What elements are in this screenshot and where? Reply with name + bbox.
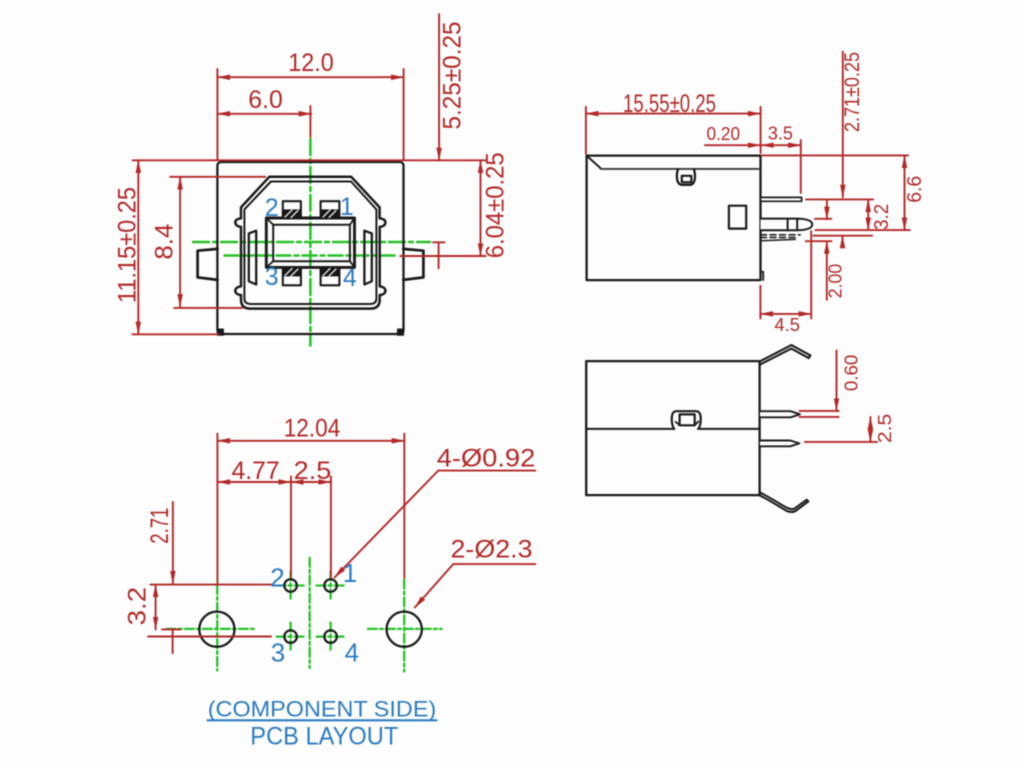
dim 12.0 line	[217, 76, 403, 78]
pin hole 4	[324, 630, 337, 643]
side view inner top fold line	[601, 168, 759, 170]
dim 2.5 line	[291, 481, 331, 483]
svg-text:8.4: 8.4	[150, 224, 178, 260]
svg-text:4: 4	[345, 637, 359, 667]
dim 12.04 line	[217, 440, 404, 442]
svg-text:2.71: 2.71	[146, 508, 174, 544]
svg-text:0.60: 0.60	[841, 355, 861, 392]
dim 8.4 line	[179, 177, 181, 307]
side view body	[587, 156, 761, 281]
pin 2 lower tail line	[761, 239, 795, 240]
USB-B shell outer outline	[235, 177, 385, 309]
svg-text:12.04: 12.04	[284, 415, 341, 443]
svg-text:1: 1	[340, 193, 354, 221]
svg-text:3.2: 3.2	[124, 587, 152, 626]
left mounting tab	[198, 249, 218, 280]
pin2 dashed-edge reference line	[814, 235, 873, 237]
top view latch outline	[672, 411, 701, 429]
svg-text:2.5: 2.5	[294, 457, 332, 485]
front view outer square body	[217, 162, 403, 334]
dim 11.15 bottom extension	[132, 333, 218, 335]
dim 6.04 line	[480, 160, 482, 256]
dim 8.4 top extension	[170, 176, 265, 178]
pin1 top reference line	[806, 198, 873, 200]
dim 15.55 line	[586, 113, 761, 115]
svg-text:PCB LAYOUT: PCB LAYOUT	[250, 722, 398, 750]
contact pad pin4 hatched contact	[321, 267, 340, 276]
front view upper horizontal green centerline	[193, 241, 430, 244]
front view vertical green centerline	[309, 139, 312, 346]
dim 2.00 line with up arrow	[826, 241, 828, 300]
dim 4.77 line	[217, 481, 291, 483]
upper bent solder leg	[760, 345, 811, 365]
dim 2.71 line with down arrow	[172, 502, 174, 584]
svg-text:3.2: 3.2	[871, 204, 893, 230]
green centerline left hole vertical	[216, 585, 218, 671]
svg-text:6.0: 6.0	[248, 86, 283, 114]
svg-text:1: 1	[343, 558, 357, 588]
bottom-right corner notch	[398, 329, 404, 335]
body top reference line for 6.6	[762, 154, 909, 156]
right inner wing fold	[364, 231, 371, 285]
green cross pin hole 2	[277, 572, 305, 600]
dim 0.60 line with down arrow	[836, 350, 838, 411]
contact pad pin3 outline	[283, 267, 301, 285]
dim 0.20 line	[705, 144, 761, 146]
dim 2.71 line upper with arrow to pin1	[842, 52, 844, 198]
svg-text:4.5: 4.5	[774, 315, 800, 335]
green cross pin hole 4	[317, 623, 345, 651]
top view mid parting line	[586, 428, 759, 430]
mounting hole centerline tick	[162, 629, 180, 653]
tongue corner draft lines	[266, 218, 354, 267]
top view latch base flares	[676, 421, 699, 425]
center tongue inner rectangle	[273, 225, 350, 262]
svg-text:2: 2	[270, 563, 284, 593]
contact pad pin1 outline	[321, 201, 340, 218]
svg-text:3: 3	[265, 263, 279, 291]
caption underline	[208, 719, 437, 721]
pin2 bottom reference line	[816, 229, 910, 231]
pin 1 (side view, upper)	[761, 197, 802, 201]
svg-text:2-Ø2.3: 2-Ø2.3	[451, 536, 533, 564]
pin B (top view, pointed)	[760, 441, 799, 447]
contact pad pin1 hatched contact	[321, 209, 340, 218]
contact pad pin2 hatched contact	[283, 209, 301, 218]
pin 2 inner segment lines	[788, 219, 798, 231]
dim 4.77 / 2.5 extension lines	[291, 477, 331, 578]
dim 11.15 line	[137, 160, 139, 334]
top reference line y160	[133, 159, 487, 161]
dim 4.5 line	[760, 313, 811, 315]
pin row 2 reference line	[148, 636, 271, 638]
pin A thickness reference lines	[800, 411, 839, 417]
svg-text:3.5: 3.5	[768, 124, 793, 144]
front view lower horizontal green centerline	[225, 254, 396, 257]
green centerline right hole vertical	[403, 580, 405, 672]
pin hole 1	[324, 579, 337, 592]
svg-text:2.5: 2.5	[875, 414, 895, 444]
side view top-left chamfer	[587, 156, 600, 168]
dim 6.0 line	[217, 113, 311, 115]
green centerline middle vertical	[309, 558, 311, 668]
leader 4-dia0.92	[438, 470, 535, 472]
green centerline left hole horizontal	[167, 628, 256, 630]
svg-text:12.0: 12.0	[288, 49, 334, 77]
dim 3.2 line	[867, 199, 869, 230]
pin hole 3	[284, 630, 297, 643]
right mounting tab	[403, 249, 423, 280]
dim 12.04 extension lines	[217, 434, 404, 584]
lower bent solder leg	[760, 492, 809, 512]
side view window cutout	[729, 206, 746, 229]
svg-text:5.25±0.25: 5.25±0.25	[439, 22, 467, 130]
pin B reference line	[805, 441, 877, 443]
pin 2 hidden edge (dashed)	[761, 234, 801, 236]
dim 6.0 extension to centerline	[309, 106, 311, 137]
side view latch inner window	[682, 176, 692, 182]
svg-text:4-Ø0.92: 4-Ø0.92	[437, 445, 536, 473]
dim 6.04 bottom reference line	[400, 255, 485, 257]
svg-text:4: 4	[343, 264, 357, 292]
svg-text:2.00: 2.00	[826, 264, 846, 299]
top view latch inner window	[680, 414, 695, 425]
dim 3.2 line	[155, 585, 157, 630]
dim 5.25 line	[438, 14, 440, 160]
dim 4.5 extension lines	[760, 231, 811, 319]
pin hole 2	[284, 579, 297, 592]
dim 3.5 right extension	[800, 140, 802, 193]
svg-text:2: 2	[265, 194, 279, 222]
dim 15.55 extension lines	[586, 107, 761, 154]
contact pad pin2 outline	[283, 201, 301, 218]
side view latch detail	[677, 169, 695, 185]
mounting hole right	[387, 612, 422, 647]
svg-text:4.77: 4.77	[231, 457, 279, 485]
svg-text:3: 3	[271, 637, 285, 667]
svg-text:11.15±0.25: 11.15±0.25	[114, 187, 142, 303]
svg-text:(COMPONENT SIDE): (COMPONENT SIDE)	[208, 697, 437, 722]
dim 2.71 lower arrow	[842, 236, 844, 248]
dim 12.0 extension lines	[217, 69, 403, 160]
side view bottom-right step	[761, 272, 764, 280]
pin2 top short reference line	[815, 218, 832, 220]
dim 3.5 line	[761, 144, 801, 146]
centerline tick cross right of square	[433, 242, 445, 268]
svg-text:6.04±0.25: 6.04±0.25	[482, 152, 510, 258]
green centerline right hole horizontal	[368, 628, 442, 630]
dim 2.00 reference line	[806, 240, 832, 242]
dim 8.4 bottom extension	[174, 307, 242, 309]
top view body	[586, 361, 759, 495]
arrow from pin1 line to pin2 top	[826, 201, 828, 219]
green cross pin hole 1	[317, 572, 345, 600]
pin 2 (side view, bullet shaped)	[761, 219, 813, 231]
pin row 1 reference line	[150, 584, 273, 586]
bottom-left corner notch	[218, 329, 224, 335]
svg-text:6.6: 6.6	[904, 176, 926, 203]
left inner wing fold	[249, 231, 256, 285]
dim 6.6 line	[904, 155, 906, 230]
green cross pin hole 3	[277, 623, 305, 651]
svg-text:0.20: 0.20	[707, 124, 741, 144]
pin A (top view, pointed)	[760, 411, 800, 417]
leader 2-dia2.3	[453, 563, 535, 565]
contact pad pin4 outline	[321, 267, 340, 285]
center tongue outer rectangle	[266, 218, 354, 267]
contact pad pin3 hatched contact	[283, 267, 301, 276]
mounting hole left	[199, 612, 234, 647]
svg-text:15.55±0.25: 15.55±0.25	[623, 90, 716, 118]
dim 2.5 line	[869, 417, 871, 442]
USB-B shell inner outline	[244, 182, 376, 305]
svg-text:2.71±0.25: 2.71±0.25	[841, 52, 864, 132]
